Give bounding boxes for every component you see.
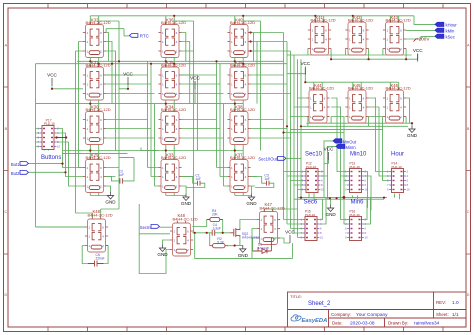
relay K35 xyxy=(158,60,186,100)
wire K48b right run xyxy=(195,233,293,259)
wire h61 xyxy=(77,60,284,62)
wire kSec xyxy=(406,36,436,39)
svg-text:PLD-10: PLD-10 xyxy=(306,165,317,169)
svg-text:But1: But1 xyxy=(11,162,20,167)
wire VCC5 stem xyxy=(417,54,419,60)
power VCC 3 xyxy=(190,76,200,90)
wire row2 top stubs xyxy=(90,61,243,66)
frame zone ticks right xyxy=(466,87,471,254)
wire min6 left pins xyxy=(341,176,348,224)
wire colC rightband xyxy=(243,21,260,151)
wire Q2 source gnd xyxy=(235,237,243,245)
relay K42 xyxy=(345,15,373,55)
svg-text:1uF: 1uF xyxy=(264,177,270,181)
relay K39 xyxy=(227,60,255,100)
ground GND 4 xyxy=(407,126,418,139)
net flag RTC xyxy=(130,34,149,39)
wire rail under K41-K43 xyxy=(287,54,412,56)
transistor Q2 IRF540NPBF xyxy=(230,228,260,239)
wire K47 left xyxy=(252,229,257,259)
wire colB leftband xyxy=(148,61,159,186)
svg-text:B4H4-2C-12D: B4H4-2C-12D xyxy=(86,20,111,25)
wire GND3 stem xyxy=(251,186,256,194)
power VCC 6 xyxy=(324,147,334,161)
wire GND6 stem xyxy=(163,240,170,245)
svg-text:Sec10Out: Sec10Out xyxy=(258,157,277,162)
svg-text:220uF: 220uF xyxy=(96,257,105,261)
wire min6 right pins xyxy=(364,198,371,224)
wire C2 loop xyxy=(106,158,134,181)
wire row3 bottom stubs xyxy=(90,145,243,151)
relay K29 xyxy=(83,153,111,193)
svg-text:B4H4-2C-12D: B4H4-2C-12D xyxy=(230,63,255,68)
relay K33 xyxy=(158,153,186,193)
svg-text:Min10: Min10 xyxy=(350,152,367,158)
wire C6 loop xyxy=(82,246,108,264)
svg-text:B4H4-2C-12D: B4H4-2C-12D xyxy=(230,155,255,160)
wire colA rightband v2 xyxy=(106,42,112,104)
wire secin flag xyxy=(160,226,173,228)
wire colA leftband xyxy=(76,42,93,218)
wire GND5 stem xyxy=(330,198,332,204)
svg-text:Date:: Date: xyxy=(332,321,343,326)
net flag But2 xyxy=(11,171,29,177)
wire h63 xyxy=(36,63,288,65)
svg-text:B4H4-2C-12D: B4H4-2C-12D xyxy=(86,155,111,160)
wire row3 top stubs xyxy=(90,104,243,111)
title block frame xyxy=(288,292,467,327)
wire connector bottom stubs xyxy=(309,193,400,199)
wire VCC3 stem xyxy=(194,89,196,104)
relay K46 xyxy=(383,83,411,123)
wire Q2 drain up xyxy=(240,220,257,229)
relay K31 xyxy=(83,60,111,100)
wire band v1 xyxy=(251,33,284,220)
svg-text:3.3uF: 3.3uF xyxy=(213,227,221,231)
ground GND 1 xyxy=(105,192,116,205)
wire But2 xyxy=(28,171,65,173)
svg-text:B4H4-2C-12D: B4H4-2C-12D xyxy=(260,206,285,211)
wire h row 199 xyxy=(294,198,384,200)
connector P14 PLD-10 (Hour) xyxy=(387,162,410,193)
frame zone letters right xyxy=(467,44,470,298)
power VCC 4 xyxy=(300,61,310,75)
wire sec10 left pins xyxy=(284,172,304,190)
frame zone letters left xyxy=(4,44,7,298)
relay K45 xyxy=(345,83,373,123)
wire row4 rail xyxy=(63,150,244,152)
svg-text:PLD-10: PLD-10 xyxy=(350,213,361,217)
svg-text:1uF: 1uF xyxy=(119,173,125,177)
wire band v2 xyxy=(251,42,287,225)
svg-text:B4H4-2C-12D: B4H4-2C-12D xyxy=(161,63,186,68)
ground GND 2 xyxy=(181,194,192,207)
svg-text:PLD-10: PLD-10 xyxy=(44,122,55,126)
wire kMin xyxy=(406,29,436,31)
svg-text:Sec6: Sec6 xyxy=(304,200,318,206)
svg-text:C: C xyxy=(467,210,470,214)
svg-text:Sec10: Sec10 xyxy=(305,152,323,158)
relay K34 xyxy=(158,105,186,145)
wire colA rightband v4 xyxy=(99,21,119,209)
wire top stubs row1 xyxy=(90,16,398,24)
wire K44 row bottom h1 xyxy=(306,98,412,126)
wire bottom loop xyxy=(139,204,170,274)
svg-text:Company:: Company: xyxy=(331,312,351,317)
wire R2 branch xyxy=(210,233,235,246)
svg-text:PLD-10: PLD-10 xyxy=(350,165,361,169)
relay K41 xyxy=(308,15,336,55)
wire colA cascade rows xyxy=(106,75,154,177)
relay K48 xyxy=(85,209,113,252)
power VCC 2 xyxy=(123,72,133,86)
svg-text:MinIn: MinIn xyxy=(346,145,357,150)
svg-text:B4H4-2C-12D: B4H4-2C-12D xyxy=(230,107,255,112)
wire band v6 xyxy=(300,59,302,197)
connector P12 PLD-10 (Sec10) xyxy=(301,162,324,193)
svg-text:RTC: RTC xyxy=(140,34,149,39)
frame zone ticks top xyxy=(48,4,443,9)
net flag Sec10Out xyxy=(258,157,286,162)
svg-text:B4H4-2C-12D: B4H4-2C-12D xyxy=(348,18,373,23)
relay K40 xyxy=(227,18,255,58)
svg-text:1/1: 1/1 xyxy=(452,312,459,318)
frame zone ticks left xyxy=(4,87,9,254)
relay K32 xyxy=(83,18,111,58)
relay K30 xyxy=(83,105,111,145)
svg-text:REV:: REV: xyxy=(436,300,446,305)
relay K37 xyxy=(227,153,255,193)
relay K44 xyxy=(306,83,334,123)
wire C1 loop2 xyxy=(182,177,205,188)
svg-text:B4H4-2C-12D: B4H4-2C-12D xyxy=(88,213,113,218)
resistor R4 xyxy=(207,209,223,222)
wire P17 extra xyxy=(45,142,83,186)
connector P15 PLD-10 (Sec6) xyxy=(300,210,323,241)
wire band v3 xyxy=(251,51,291,229)
wire K44 row bottom h2 xyxy=(301,117,408,127)
wire band v4 xyxy=(293,55,295,233)
wire sec6 right pins xyxy=(319,198,326,224)
svg-text:B4H4-2C-12D: B4H4-2C-12D xyxy=(386,18,411,23)
capacitor C1 xyxy=(195,174,201,186)
wire h103 extension xyxy=(155,103,244,105)
relay K38 xyxy=(227,105,255,145)
wire h227 xyxy=(36,226,85,228)
wire colA rightband v3 xyxy=(106,51,115,151)
svg-text:MinOut: MinOut xyxy=(343,140,357,145)
wire D1 loop xyxy=(253,238,283,251)
svg-text:1.0: 1.0 xyxy=(452,300,459,306)
svg-text:Your Company: Your Company xyxy=(356,312,388,318)
wire P17 right to K29 xyxy=(56,129,83,177)
wire min10 right pins xyxy=(364,172,371,211)
power VCC 5 xyxy=(413,48,423,62)
wire left loop xyxy=(36,64,85,227)
wire h103 xyxy=(36,103,155,105)
ground GND 7 xyxy=(238,245,249,258)
svg-text:kMin: kMin xyxy=(446,29,456,34)
svg-text:C: C xyxy=(4,210,7,214)
frame zone ticks bottom xyxy=(48,327,443,332)
wire C3 loop2 xyxy=(251,177,274,188)
net flag But1 xyxy=(11,162,29,168)
wire hour left pins xyxy=(369,98,390,181)
wire colC cascade rows xyxy=(251,75,291,177)
wire colB cascade rows xyxy=(182,75,224,177)
svg-text:20K: 20K xyxy=(212,213,219,217)
svg-text:rainsilves34: rainsilves34 xyxy=(414,321,440,327)
svg-text:B4H4-2C-12D: B4H4-2C-12D xyxy=(161,20,186,25)
net flag MinOut xyxy=(333,139,357,145)
svg-text:IRF540NPBF: IRF540NPBF xyxy=(242,235,260,239)
wire K44 left pin feeds xyxy=(291,98,307,117)
svg-text:PLD-10: PLD-10 xyxy=(305,213,316,217)
relay K43 xyxy=(383,15,411,55)
svg-text:1uF: 1uF xyxy=(195,177,201,181)
capacitor C2 xyxy=(119,170,125,184)
relay K36 xyxy=(158,18,186,58)
wire colA rightband v1 xyxy=(106,33,108,62)
svg-text:But2: But2 xyxy=(11,171,20,176)
net flag kSec xyxy=(435,34,455,39)
wire VCC6 stem xyxy=(324,160,329,164)
svg-text:B4H4-2C-12D: B4H4-2C-12D xyxy=(309,86,334,91)
wire band v5 xyxy=(297,59,299,237)
ground GND 3 xyxy=(246,194,257,207)
svg-text:kHour: kHour xyxy=(446,23,458,28)
svg-text:SecIn: SecIn xyxy=(140,225,151,230)
wire top bus xyxy=(90,15,414,17)
wire sec6 left pins xyxy=(284,220,303,238)
svg-text:D: D xyxy=(4,293,7,297)
wire Sec10Out xyxy=(286,157,301,159)
svg-text:Hour: Hour xyxy=(391,152,404,158)
wire min10 left pins xyxy=(331,98,347,181)
relay K47 xyxy=(257,202,285,245)
wire GND1 stem xyxy=(106,186,110,192)
wire minout flag xyxy=(324,141,333,172)
net flag SecIn xyxy=(140,225,160,231)
svg-text:B4H4-2C-12D: B4H4-2C-12D xyxy=(173,217,198,222)
power flag +200V xyxy=(414,37,431,42)
wire RTC to K32 xyxy=(106,29,129,36)
svg-text:B4H4-2C-12D: B4H4-2C-12D xyxy=(311,18,336,23)
wire row4 rail b xyxy=(63,153,128,155)
wire K47 top feed xyxy=(264,209,297,212)
ground GND 6 xyxy=(157,245,168,258)
wire row1 bottom stubs xyxy=(90,58,243,64)
wire row4 bottom rails xyxy=(90,195,251,197)
wire VCC4 to K44 row tops xyxy=(287,68,399,90)
svg-text:B4H4-2C-12D: B4H4-2C-12D xyxy=(348,86,373,91)
diode D1 1N4148 xyxy=(253,238,272,253)
net flag kMin xyxy=(435,28,455,33)
capacitor C3 xyxy=(264,174,270,186)
svg-text:B4H4-2C-12D: B4H4-2C-12D xyxy=(386,86,411,91)
svg-text:EasyEDA: EasyEDA xyxy=(302,318,328,324)
wire row2 bottom stubs xyxy=(90,100,243,104)
wire K48a top xyxy=(92,209,119,217)
svg-text:B4H4-2C-12D: B4H4-2C-12D xyxy=(161,107,186,112)
wire row4 bottom stubs xyxy=(90,193,243,196)
net flag MinIn xyxy=(336,144,356,150)
svg-text:Sheet:: Sheet: xyxy=(436,312,449,317)
wire coil rail K41-K43 xyxy=(308,49,418,60)
wire But1 xyxy=(28,163,62,165)
net flag kHour xyxy=(435,22,457,27)
svg-text:Sheet_2: Sheet_2 xyxy=(308,301,331,307)
connector P16 PLD-10 (Min6) xyxy=(345,210,368,241)
svg-text:PLD-10: PLD-10 xyxy=(392,165,403,169)
wire VCC7 stem xyxy=(283,238,290,243)
capacitor C4 xyxy=(212,223,221,236)
easyeda logo xyxy=(291,315,327,324)
wire VCC2 stem xyxy=(119,85,128,89)
svg-text:2020-03-08: 2020-03-08 xyxy=(350,321,375,327)
svg-text:B4H4-2C-12D: B4H4-2C-12D xyxy=(86,107,111,112)
capacitor C6 xyxy=(88,253,105,267)
svg-text:B4H4-2C-12D: B4H4-2C-12D xyxy=(230,20,255,25)
wire row4 top stubs xyxy=(90,151,243,160)
connector P17 PLD-10 xyxy=(37,119,60,150)
wire K44 row bottom h3 xyxy=(284,129,383,132)
svg-text:kSec: kSec xyxy=(446,35,455,40)
svg-text:+200V: +200V xyxy=(416,37,430,42)
svg-text:TITLE:: TITLE: xyxy=(290,294,302,299)
relay K49 xyxy=(170,213,198,256)
wire colC leftband xyxy=(217,61,228,186)
svg-text:D: D xyxy=(467,293,470,297)
svg-text:B4H4-2C-12D: B4H4-2C-12D xyxy=(161,155,186,160)
power VCC 7 xyxy=(285,230,295,244)
svg-text:Min6: Min6 xyxy=(351,200,365,206)
wire colB rightband xyxy=(174,21,197,232)
wire K48b to R4 xyxy=(192,232,230,234)
resistor R2 xyxy=(210,237,229,248)
svg-text:B4H4-2C-12D: B4H4-2C-12D xyxy=(86,63,111,68)
svg-text:Buttons: Buttons xyxy=(41,155,61,161)
wire h147 colB xyxy=(141,148,158,151)
wire vcc1 xyxy=(52,87,83,89)
wire sec10 right pins xyxy=(320,172,327,200)
ground GND 5 xyxy=(325,205,336,218)
wire minin flag xyxy=(328,146,337,176)
wire P17 left pins xyxy=(36,129,40,147)
wire GND2 stem xyxy=(182,186,187,194)
wire kHour xyxy=(414,16,436,25)
svg-text:Drawn By:: Drawn By: xyxy=(388,321,408,326)
wire R4 loop xyxy=(192,220,222,233)
wire h row 197 xyxy=(298,197,388,199)
power VCC 1 xyxy=(47,73,57,87)
unconnected pin stub P17 xyxy=(55,136,67,138)
connector P13 PLD-10 (Min10) xyxy=(345,162,368,193)
